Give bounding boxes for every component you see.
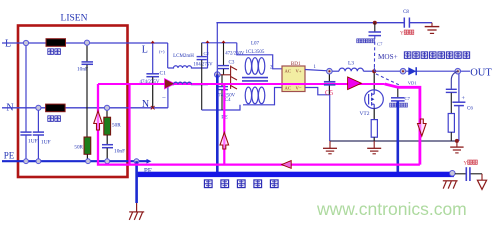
label 高阻 [48, 116, 61, 122]
node circle before VD1 [400, 68, 406, 74]
label 高阻 [48, 49, 61, 55]
junction secondary rail [455, 139, 459, 143]
svg-text:VD1: VD1 [408, 81, 418, 86]
svg-text:L: L [5, 39, 11, 50]
wire L07 lower-right lead to BD1 [267, 88, 282, 105]
svg-text:C1: C1 [160, 71, 167, 77]
arrow noise up (PE riser) [220, 133, 229, 150]
wire N node drop to 1uF [37, 109, 39, 132]
svg-text:VT2: VT2 [359, 111, 369, 117]
wire BD1 V- output [305, 88, 330, 95]
svg-text:1: 1 [314, 65, 317, 70]
wire N line [2, 107, 168, 109]
wire L rail after choke [202, 42, 237, 44]
wire L measuring branch [86, 44, 88, 62]
wire PE rail [2, 160, 147, 162]
wire C1 drop from L line [152, 43, 154, 73]
capacitor C5 plates (over magenta) [324, 81, 336, 83]
node circle N-out [104, 105, 109, 110]
svg-text:L: L [142, 45, 148, 56]
node circle PE filter [215, 72, 221, 78]
transformer L07 upper winding [243, 54, 267, 56]
capacitor C6 electrolytic [458, 74, 460, 102]
earth ground (C5 leg) [323, 141, 337, 154]
svg-text:Y: Y [464, 162, 468, 167]
node circle bus end [450, 171, 456, 177]
wire PE stub [217, 74, 230, 76]
capacitor 10nF (L branch) [82, 61, 94, 63]
wire C7 lower to ground plane (thick) [396, 101, 399, 172]
wire N riser to choke lower [167, 85, 169, 108]
node circle output [455, 68, 461, 74]
top parasitic wire [216, 22, 404, 24]
ground plane bus [136, 172, 454, 177]
svg-text:LISEN: LISEN [61, 14, 88, 24]
chassis terminal triangle [481, 174, 483, 180]
inductor high-impedance block N line (高阻) [46, 104, 66, 112]
svg-text:−: − [162, 94, 166, 102]
label 参考接地板 [204, 180, 278, 188]
capacitor C7 lower (distributed) [397, 87, 399, 97]
svg-text:1UF: 1UF [41, 140, 51, 146]
svg-text:472/250V: 472/250V [225, 52, 245, 57]
arrow noise right (choke) [165, 79, 175, 89]
node circle N-in [36, 105, 41, 110]
wire output [374, 70, 470, 72]
wire bus to output Y-cap [455, 173, 466, 175]
capacitor 1UF (N) [33, 131, 44, 133]
wire PE drop to chassis [135, 161, 138, 203]
svg-text:C3: C3 [229, 61, 235, 66]
svg-text:AC: AC [285, 69, 291, 74]
svg-text:104/275V: 104/275V [193, 63, 213, 68]
capacitor 10nF (N branch) [102, 144, 113, 146]
wire choke upper right riser [207, 43, 209, 68]
wire L node drop to 1uF [25, 44, 27, 132]
chassis ground (bus right end) [443, 181, 458, 189]
node circle L-out [84, 40, 89, 45]
dashed wire C7 to drain [373, 36, 375, 68]
resistor source (VT2) [373, 109, 375, 120]
diode VD1 [408, 67, 416, 75]
svg-text:C6: C6 [467, 107, 473, 112]
wire BD1 V+ output [305, 70, 328, 71]
capacitor 1UF (L) [20, 131, 31, 133]
resistor 50R (L branch, green) [84, 137, 91, 154]
magenta Y-cap drop [223, 84, 225, 165]
svg-text:PE: PE [144, 167, 152, 175]
svg-text:(+): (+) [159, 49, 165, 54]
wire C5/V- drop to secondary rail [329, 95, 331, 141]
svg-text:C5: C5 [325, 89, 334, 97]
wire bottom link to transformer [202, 105, 240, 110]
capacitor output filter [451, 71, 458, 89]
capacitor C2 X-cap [201, 43, 203, 56]
svg-text:1UF: 1UF [28, 139, 38, 145]
magenta noise path: main line [98, 83, 385, 85]
svg-text:C4: C4 [225, 98, 231, 103]
junction drain node [372, 69, 376, 73]
capacitor C4 Y-cap [221, 75, 223, 86]
secondary ground rail [330, 140, 457, 142]
chassis ground (left) [129, 203, 144, 220]
svg-text:www.cntronics.com: www.cntronics.com [316, 199, 467, 219]
earth ground (output) [450, 141, 463, 153]
inductor LCM lower winding (over magenta) [174, 82, 192, 84]
bridge rectifier BD1 [282, 66, 305, 92]
label 分布电容 C7 (upper) [357, 39, 375, 43]
svg-text:N: N [142, 99, 149, 110]
junction arrows on L rail [151, 41, 155, 44]
capacitor C7 upper (distributed) [374, 23, 376, 32]
MOSFET VT2 [373, 71, 375, 90]
svg-text:50R: 50R [112, 123, 121, 129]
inductor LCM common-mode choke lower winding [168, 82, 208, 84]
junction top wire [373, 21, 377, 25]
svg-text:OUT: OUT [470, 68, 492, 79]
capacitor C5 bulk [328, 74, 330, 82]
svg-text:LCM2mH: LCM2mH [173, 54, 194, 59]
capacitor C1 X-cap [146, 73, 159, 75]
earth ground (top wire) [425, 23, 440, 34]
svg-text:V+: V+ [296, 69, 302, 74]
magenta noise path: slant and drop [385, 84, 420, 165]
dashed wire drain to C7 lower [376, 74, 401, 86]
inductor high-impedance block L line (高阻) [46, 39, 66, 47]
svg-text:L3: L3 [348, 61, 354, 67]
svg-text:C7: C7 [405, 96, 411, 101]
arrow noise left (return path) [282, 161, 292, 169]
resistor 50R (N branch, green) [106, 109, 108, 117]
svg-text:Y: Y [400, 32, 404, 37]
inductor LCM common-mode choke upper winding [168, 66, 208, 68]
svg-text:C8: C8 [403, 10, 409, 15]
arrow noise right (C5 to MOS, big) [348, 77, 362, 90]
capacitor C8 Y-cap [403, 18, 405, 28]
svg-text:L07: L07 [251, 42, 260, 47]
wire PE riser (thin upper part) [216, 23, 218, 75]
capacitor Y (output to plane) [465, 167, 467, 181]
svg-text:C7: C7 [377, 42, 383, 47]
node circle L-in [23, 40, 28, 45]
wire L07 upper-left lead [237, 43, 243, 55]
arrow noise up (LISN) [94, 111, 103, 130]
arrow PE rail end [147, 159, 152, 164]
svg-text:BD1: BD1 [291, 61, 301, 67]
arrow noise down (heatsink drop) [418, 119, 427, 136]
node circles PE rail [24, 159, 29, 164]
svg-text:50R: 50R [74, 145, 83, 151]
resistor output load [448, 114, 454, 133]
svg-text:AC: AC [285, 85, 291, 90]
node circle BD1 output [327, 68, 333, 74]
capacitor C3 Y-cap [223, 43, 225, 65]
svg-text:PE: PE [4, 151, 15, 161]
wire L07 upper-right lead to BD1 [267, 55, 282, 69]
transformer L07 lower winding [243, 104, 267, 106]
wire drop to CM choke upper [167, 43, 169, 68]
svg-text:+: + [462, 96, 466, 102]
svg-text:10nF: 10nF [114, 149, 125, 155]
svg-text:MOS+: MOS+ [378, 53, 398, 61]
transformer core lines [242, 77, 268, 79]
inductor L3 [332, 70, 339, 72]
svg-text:C2: C2 [204, 51, 209, 56]
svg-text:10nF: 10nF [77, 67, 88, 73]
LISN enclosure box [18, 26, 128, 178]
magenta LISN edge drop [128, 84, 130, 165]
chassis ground (rotated, at PE node) [231, 66, 237, 90]
earth ground (VT2 source) [367, 141, 381, 154]
wire PE riser thick to ground plane [216, 75, 219, 172]
wire L line [2, 42, 168, 44]
svg-text:V−: V− [296, 85, 302, 90]
